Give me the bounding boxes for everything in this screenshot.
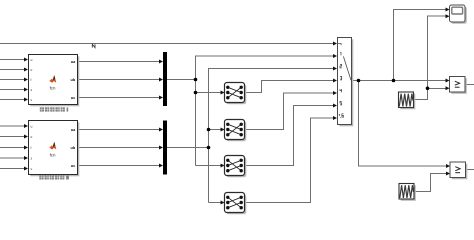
label 调制波计算1 [40,107,68,111]
selector S3 [225,156,247,178]
wire bar2 to selector2 [209,129,222,131]
wire riser bar1 signal vertical [196,56,335,166]
arrow selector3 in [221,164,225,168]
node carrier1 branch [426,87,430,91]
arrow selector2 in [221,128,225,132]
wire branch up to scope in1 [394,10,447,81]
arrow op2 in1 [446,164,450,168]
selector S2 [225,120,247,142]
scope [450,5,467,24]
carrier generator 2 (triangle wave) [399,184,416,201]
wire fcn2 input 3 [0,147,25,149]
wire op1 output [465,84,474,86]
wire fcn1 ua to mux1 [77,61,160,63]
wire riser bar2 signal vertical [209,69,335,203]
wire carrier1 to riser [414,16,447,99]
arrow switch port3 [333,79,337,83]
svg-text:u: u [31,58,33,62]
node bar2 out junction [207,146,211,150]
wire fcn2 ub to mux2 [77,147,160,149]
arrow selector1 in [221,91,225,95]
arrow switch port6 [333,116,337,120]
wire bar1 to selector3 [196,165,222,167]
arrow mux2 in1 [159,128,163,132]
wire fcn2 input 1 [0,125,25,127]
arrow op1 in2 [446,86,450,90]
arrow fcn1 in5 [24,98,28,102]
wire bar2 to selector4 [209,202,222,204]
svg-text:e: e [31,68,33,72]
wire fcn1 ub to mux1 [77,79,160,81]
wire fcn2 input 4 [0,157,25,159]
wire N control line [0,43,334,45]
arrow op1 in1 [446,79,450,83]
arrow fcn2 in3 [24,146,28,150]
matlab logo U2 [49,142,56,150]
svg-text:uc: uc [71,164,75,168]
arrow fcn1 in4 [24,88,28,92]
arrow scope in1 [446,8,450,12]
wire carrier2 to op2 in2 [414,174,448,192]
carrier generator 1 (triangle wave) [399,92,416,109]
mux M1 (bar) [163,52,167,106]
wire fcn2 input 5 [0,168,25,170]
arrow fcn1 in2 [24,68,28,72]
mux M2 (bar) [163,121,167,175]
arrow switch port5 [333,104,337,108]
wire fcn2 input 2 [0,136,25,138]
wire selector2 output to switch port4 [245,93,335,130]
wire bar1 to selector1 [196,92,222,94]
wire fcn1 uc to mux1 [77,97,160,99]
arrow fcn2 in1 [24,124,28,128]
svg-text:z: z [31,88,33,92]
node bar2 sel2 junction [207,128,211,132]
arrow op2 in2 [446,172,450,176]
node main branch2 scope [392,79,396,83]
svg-text:ub: ub [71,78,76,82]
control stub [338,44,342,46]
selector S1 [225,83,247,105]
arrow mux1 in1 [159,60,163,64]
wire selector4 output to switch port6 [245,118,335,203]
svg-text:v: v [31,167,33,171]
svg-text:z: z [31,156,33,160]
wire fcn2 ua to mux2 [77,129,160,131]
wire mux1 output to riser [167,79,196,81]
relational operator >= 1 [450,77,467,94]
wire fcn1 input 3 [0,79,25,81]
relational operator >= 2 [450,162,467,179]
arrow mux1 in2 [159,78,163,82]
arrow switch port4 [333,91,337,95]
arrow fcn2 in4 [24,156,28,160]
svg-text:fcn: fcn [50,152,56,157]
wire fcn1 input 5 [0,99,25,101]
arrow selector4 in [221,201,225,205]
wire branch down to op2 [359,81,448,167]
arrow switch port2 [333,67,337,71]
svg-text:ub: ub [71,146,76,150]
node bar1 out junction [194,78,198,82]
node bar1 sel1 junction [194,91,198,95]
svg-text:uc: uc [71,96,75,100]
wire carrier1 branch to op1 in2 [428,87,447,89]
arrow fcn1 in1 [24,58,28,62]
MATLAB function block 2 调制波计算2 [29,121,80,177]
svg-text:e: e [31,135,33,139]
wire op2 output [466,169,474,171]
diagonal [343,56,351,80]
matlab logo U1 [49,75,56,83]
arrow mux1 in3 [159,96,163,100]
wire fcn1 input 4 [0,89,25,91]
wire selector3 output to switch port5 [245,106,335,166]
svg-text:u: u [31,124,33,128]
arrow fcn2 in2 [24,135,28,139]
svg-text:f: f [31,146,32,150]
switch port number labels 1-5 and *,6 [339,52,344,118]
node main branch1 [357,79,361,83]
selector S4 [225,193,247,215]
svg-text:f: f [31,78,32,82]
arrow mux2 in2 [159,146,163,150]
arrow switch port1 [333,54,337,58]
svg-text:fcn: fcn [50,85,56,90]
wire selector1 output to switch port3 [245,81,335,93]
arrow switch port0 [333,42,337,46]
wire mux2 output to riser [167,147,209,149]
wire fcn2 uc to mux2 [77,165,160,167]
wire fcn1 input 1 [0,59,25,61]
arrow fcn1 in3 [24,78,28,82]
wire fcn1 input 2 [0,69,25,71]
label 调制波计算2 [39,175,69,179]
arrow fcn2 in5 [24,167,28,171]
svg-text:v: v [31,98,33,102]
multiport switch U3 [338,38,354,127]
U1 output port labels ua ub uc [71,60,77,100]
arrow scope in2 [446,14,450,18]
wire switch output main line [352,80,447,82]
N label [92,44,95,47]
MATLAB function block 1 调制波计算1 [29,55,80,107]
U1 input port labels [31,58,33,102]
arrow mux2 in3 [159,164,163,168]
